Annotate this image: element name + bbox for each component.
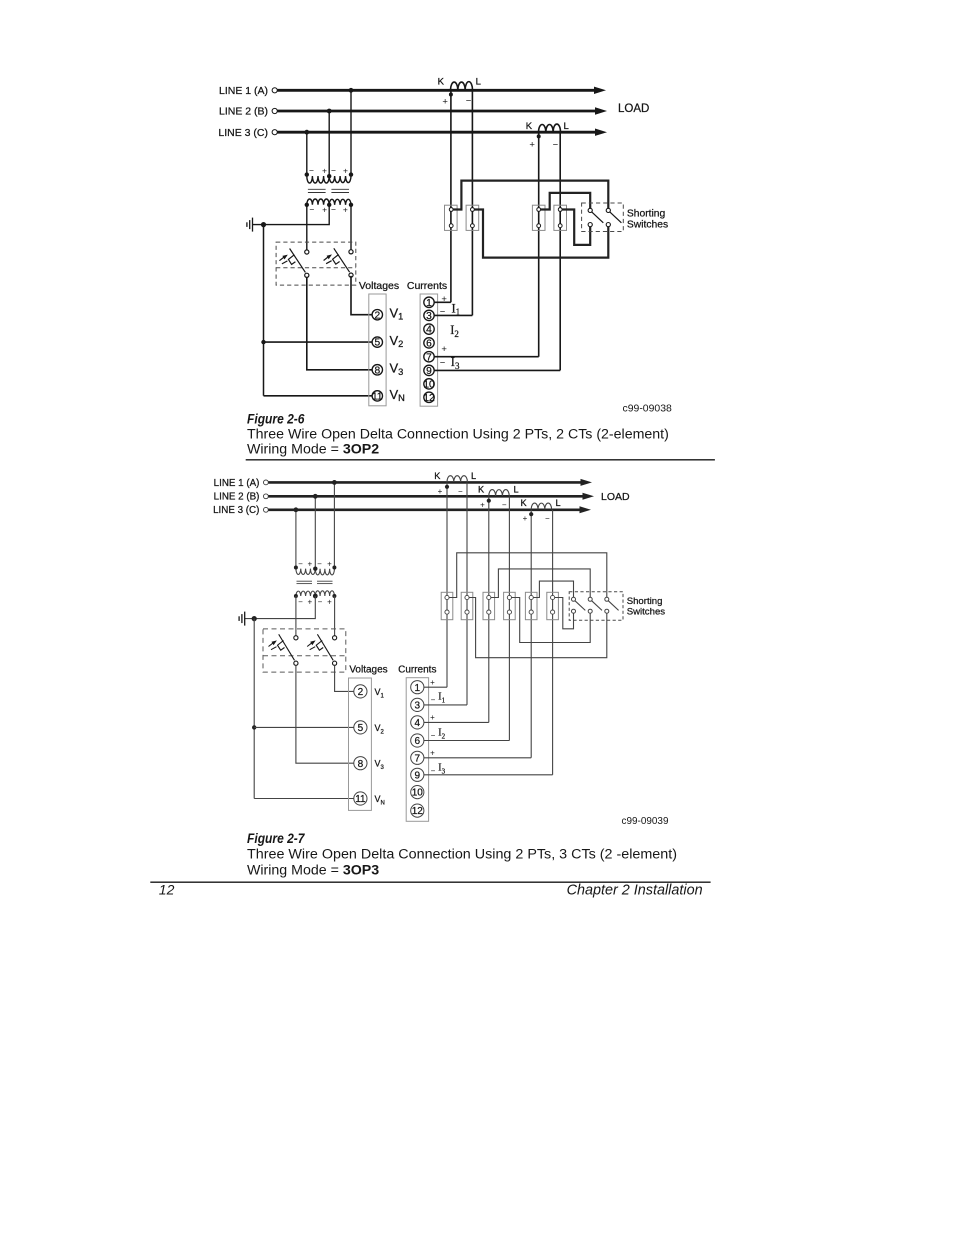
terminal 8 [354, 757, 367, 770]
shorting switches enclosure [569, 592, 623, 621]
wire CT1 L lead to terminal 3 [471, 90, 473, 315]
svg-text:Three Wire Open Delta Connecti: Three Wire Open Delta Connection Using 2… [247, 426, 669, 442]
svg-text:−: − [440, 357, 446, 368]
junction CT1 K [449, 93, 453, 97]
transformer PT2 primary winding [329, 166, 351, 183]
svg-text:Voltages: Voltages [349, 665, 387, 676]
junction PT2 secondary right [349, 203, 353, 207]
terminal 8 [372, 365, 382, 377]
svg-text:L: L [556, 498, 561, 508]
terminal 1 [424, 297, 434, 309]
svg-text:LOAD: LOAD [618, 103, 649, 115]
terminal 9 [411, 768, 424, 781]
junction neutral at V2 [261, 340, 265, 344]
svg-text:9: 9 [415, 770, 421, 781]
svg-text:+: + [430, 678, 435, 687]
svg-text:6: 6 [415, 736, 421, 747]
wire fuse F1 to terminal 8 V3 [307, 277, 373, 370]
wire line3 to PT1 primary [306, 132, 308, 176]
footer [150, 881, 710, 898]
svg-text:−: − [298, 560, 303, 569]
wire neutral vertical [253, 619, 255, 799]
svg-text:Switches: Switches [627, 607, 666, 618]
wire terminal 4 [424, 721, 489, 723]
svg-text:Currents: Currents [407, 280, 447, 292]
svg-text:+: + [523, 514, 528, 523]
junction PT primary center [327, 174, 331, 178]
svg-text:LINE 1 (A): LINE 1 (A) [214, 478, 260, 489]
test block TB3 [532, 205, 545, 230]
svg-text:+: + [343, 166, 348, 176]
current terminal strip [406, 678, 428, 822]
test block TB1 [441, 592, 453, 619]
svg-text:VN: VN [390, 387, 405, 403]
svg-text:LINE 3 (C): LINE 3 (C) [218, 127, 268, 139]
svg-text:9: 9 [426, 366, 432, 377]
svg-text:Switches: Switches [627, 220, 668, 231]
svg-text:K: K [526, 121, 533, 132]
wire terminal 9 [424, 774, 553, 776]
svg-text:LINE 2 (B): LINE 2 (B) [214, 492, 260, 503]
wire fuse F2 to terminal 2 V1 [335, 665, 354, 691]
junction line1 tap [349, 88, 354, 93]
svg-text:c99-09038: c99-09038 [623, 403, 672, 415]
wire terminal 9 [434, 369, 560, 371]
svg-text:12: 12 [159, 881, 175, 897]
svg-text:V3: V3 [375, 759, 385, 772]
svg-text:c99-09039: c99-09039 [622, 816, 669, 827]
wire TB3 to shorting switch SS2 top [491, 569, 591, 598]
terminal 4 [411, 716, 424, 729]
svg-text:3: 3 [415, 701, 421, 712]
shorting switch SSB [606, 208, 621, 226]
svg-text:I2: I2 [438, 728, 445, 741]
svg-text:VN: VN [375, 794, 385, 807]
svg-text:10: 10 [412, 788, 424, 799]
svg-text:I3: I3 [451, 355, 460, 371]
transformer PT1 primary winding [307, 166, 329, 183]
wire CT3 L lead to terminal 9 [552, 510, 554, 775]
svg-text:Figure 2-7: Figure 2-7 [247, 831, 305, 847]
wire CT3 K lead to terminal 7 [530, 510, 532, 758]
wire to terminal 5 V2 [264, 341, 373, 343]
terminal 6 [424, 338, 434, 350]
terminal 11 [354, 792, 367, 805]
svg-text:−: − [431, 731, 436, 740]
junction line3 tap [304, 130, 309, 135]
svg-text:V1: V1 [375, 687, 385, 700]
wire TB5 to shorting switch SS1 top [533, 581, 574, 597]
junction neutral [261, 222, 266, 227]
wire TB2 to shorting switch SS3 bottom [469, 598, 607, 658]
svg-text:+: + [438, 487, 443, 496]
svg-text:+: + [529, 140, 535, 151]
wire secondary center to ground bus [245, 596, 316, 619]
terminal 11 [372, 391, 383, 403]
junction PT secondary center [327, 203, 331, 207]
ground [239, 612, 245, 626]
fuse switch F2 [307, 634, 337, 665]
core PT2 [317, 581, 333, 583]
terminal 5 [354, 721, 367, 734]
svg-text:I1: I1 [438, 692, 445, 705]
wire TB2 to shorting switch bottom right [474, 210, 608, 258]
svg-text:Shorting: Shorting [627, 596, 663, 607]
bus LINE 1 (A) [219, 85, 606, 97]
terminal 7 [424, 352, 434, 364]
svg-text:−: − [466, 96, 472, 107]
shorting switches enclosure [582, 203, 624, 232]
wire secondary center to ground bus [253, 205, 330, 225]
CT3 coil on line 3 [521, 498, 561, 523]
svg-text:K: K [438, 77, 445, 88]
wire TB4 to shorting switch SS2 bottom [511, 598, 590, 643]
bus LINE 3 (C) [218, 127, 607, 139]
svg-text:I2: I2 [450, 323, 459, 339]
wire fuse F1 to terminal 8 V3 [296, 665, 354, 763]
svg-text:5: 5 [374, 338, 380, 349]
transformer PT2 primary winding [315, 560, 334, 575]
junction CT1 K [445, 485, 449, 489]
junction CT3 K [529, 512, 533, 516]
svg-text:6: 6 [426, 339, 432, 350]
test block TB5 [525, 592, 537, 619]
svg-text:1: 1 [415, 683, 421, 694]
wire PT1 secondary left to fuse switch 1 [295, 596, 297, 636]
wire to terminal 11 VN [264, 395, 373, 397]
svg-text:LOAD: LOAD [601, 491, 630, 503]
wire terminal 7 [424, 757, 532, 759]
junction PT1 secondary left [305, 203, 309, 207]
svg-text:7: 7 [426, 352, 432, 363]
CT1 coil on line 1 [438, 77, 481, 108]
svg-text:Shorting: Shorting [627, 208, 666, 219]
terminal 3 [411, 698, 424, 711]
junction PT secondary center [313, 594, 318, 599]
wire line2 to PT primary center [328, 111, 330, 176]
test block TB2 [466, 205, 479, 230]
junction line2 tap [313, 494, 318, 499]
svg-text:+: + [322, 204, 327, 214]
junction PT1 primary left [305, 172, 309, 176]
wire terminal 3 [434, 314, 472, 316]
junction PT1 secondary left [294, 594, 298, 598]
wire terminal 7 [434, 356, 539, 358]
terminal 7 [411, 751, 424, 764]
terminal 2 [372, 310, 382, 322]
svg-text:K: K [521, 498, 528, 508]
transformer PT2 secondary winding [329, 199, 351, 214]
svg-text:−: − [431, 766, 436, 775]
junction neutral at V2 [252, 725, 256, 729]
CT2 coil on line 3 [526, 121, 569, 150]
terminal 10 [411, 786, 424, 799]
svg-text:10: 10 [423, 380, 435, 391]
wire TB4 to shorting switch bottom left [562, 210, 590, 245]
svg-text:V3: V3 [390, 361, 404, 377]
junction line1 tap [332, 480, 337, 485]
svg-text:I3: I3 [438, 762, 445, 775]
fuse switch F2 [324, 248, 354, 277]
svg-text:+: + [343, 204, 348, 214]
dashed fuse enclosure [276, 242, 356, 285]
test block TB4 [504, 592, 516, 619]
svg-text:V1: V1 [390, 306, 404, 322]
junction PT primary center [313, 567, 317, 571]
shorting switch SS3 [605, 597, 619, 613]
wire line3 to PT1 primary [295, 510, 297, 569]
svg-text:12: 12 [412, 806, 424, 817]
wire neutral vertical [263, 225, 265, 396]
core PT1 [297, 581, 313, 583]
junction PT1 primary left [294, 566, 298, 570]
svg-text:3: 3 [426, 311, 432, 322]
test block TB2 [461, 592, 473, 619]
svg-text:7: 7 [415, 753, 421, 764]
wire PT2 secondary right to fuse switch 2 [350, 205, 352, 250]
terminal 9 [424, 365, 434, 377]
transformer PT1 secondary winding [307, 199, 329, 214]
svg-text:+: + [441, 294, 447, 305]
svg-text:8: 8 [374, 365, 380, 376]
terminal 1 [411, 681, 424, 694]
svg-text:−: − [502, 501, 507, 510]
terminal 3 [424, 310, 434, 322]
svg-text:L: L [564, 121, 569, 132]
svg-text:−: − [545, 514, 550, 523]
wire CT1 K lead to terminal 1 [450, 90, 452, 302]
svg-text:+: + [327, 560, 332, 569]
caption figure 2-7 [247, 831, 677, 879]
terminal 4 [424, 324, 434, 336]
svg-text:Chapter 2 Installation: Chapter 2 Installation [567, 883, 703, 899]
svg-text:−: − [309, 166, 314, 176]
svg-text:−: − [331, 166, 336, 176]
svg-text:+: + [442, 96, 448, 107]
svg-text:+: + [430, 713, 435, 722]
transformer PT1 primary winding [296, 560, 315, 575]
wire TB1 to shorting switch SS3 top [449, 553, 607, 598]
wire line2 to PT primary center [314, 496, 316, 568]
test block TB3 [483, 592, 495, 619]
svg-text:+: + [307, 598, 312, 607]
CT2 coil on line 2 [478, 485, 519, 510]
wire TB6 to shorting switch SS1 bottom [554, 598, 573, 629]
svg-text:K: K [478, 485, 485, 495]
terminal 12 [411, 804, 424, 817]
wire terminal 3 [424, 704, 467, 706]
shorting switch SS1 [572, 597, 586, 613]
svg-text:4: 4 [415, 718, 421, 729]
svg-text:Wiring Mode = 3OP2: Wiring Mode = 3OP2 [247, 441, 379, 457]
svg-text:1: 1 [426, 298, 432, 309]
svg-text:Currents: Currents [398, 665, 436, 676]
bus LINE 2 (B) [214, 492, 594, 503]
junction PT2 primary right [349, 172, 353, 176]
svg-text:−: − [298, 598, 303, 607]
wire TB3 to shorting switch top left [541, 193, 591, 210]
test block TB4 [554, 205, 567, 230]
svg-text:2: 2 [374, 310, 380, 321]
bus LINE 3 (C) [213, 505, 591, 516]
svg-text:5: 5 [358, 723, 364, 734]
svg-text:8: 8 [358, 759, 364, 770]
svg-text:K: K [434, 471, 441, 481]
wire TB1 to shorting switch top right [453, 181, 608, 210]
svg-text:12: 12 [423, 393, 435, 404]
svg-text:−: − [458, 487, 463, 496]
svg-text:+: + [441, 344, 447, 355]
core PT1 [308, 189, 326, 192]
junction neutral [252, 616, 257, 621]
junction line3 tap [294, 507, 299, 512]
bus LINE 2 (B) [219, 106, 607, 118]
wire CT2 L lead to terminal 9 [559, 132, 561, 370]
wire CT1 K lead to terminal 1 [446, 482, 448, 687]
svg-text:LINE 1 (A): LINE 1 (A) [219, 85, 268, 97]
svg-text:L: L [471, 471, 476, 481]
wire line1 to PT2 primary [350, 90, 352, 176]
svg-text:−: − [318, 598, 323, 607]
svg-text:+: + [480, 501, 485, 510]
wire to terminal 11 VN [254, 798, 354, 800]
svg-text:+: + [307, 560, 312, 569]
svg-text:2: 2 [358, 687, 364, 698]
svg-text:11: 11 [355, 794, 366, 805]
test block TB1 [445, 205, 458, 230]
wire CT2 L lead to terminal 6 [508, 496, 510, 740]
svg-text:11: 11 [372, 392, 383, 403]
svg-text:+: + [327, 598, 332, 607]
junction CT2 K [537, 134, 541, 138]
wire fuse F2 to terminal 2 V1 [351, 276, 372, 315]
bus LINE 1 (A) [214, 478, 592, 489]
wire terminal 1 [434, 301, 451, 303]
svg-text:Figure 2-6: Figure 2-6 [247, 411, 305, 427]
junction line2 tap [327, 109, 332, 114]
svg-text:LINE 3 (C): LINE 3 (C) [213, 505, 259, 516]
junction CT2 K [487, 499, 491, 503]
shorting switch SSA [588, 208, 603, 226]
svg-text:+: + [322, 166, 327, 176]
terminal 5 [372, 337, 382, 349]
wire terminal 6 [424, 740, 510, 742]
transformer PT2 secondary winding [315, 591, 334, 607]
svg-text:L: L [476, 77, 481, 88]
wire terminal 1 [424, 686, 447, 688]
current terminal strip [420, 294, 438, 406]
terminal 2 [354, 685, 367, 698]
svg-text:Wiring Mode = 3OP3: Wiring Mode = 3OP3 [247, 862, 379, 878]
svg-text:−: − [309, 204, 314, 214]
terminal 10 [423, 379, 435, 391]
voltage terminal strip [349, 678, 372, 810]
core PT2 [331, 189, 349, 192]
junction PT2 secondary right [332, 594, 336, 598]
svg-text:4: 4 [426, 325, 432, 336]
svg-text:−: − [553, 140, 559, 151]
voltage terminal strip [369, 294, 386, 406]
wire PT2 secondary right to fuse switch 2 [334, 596, 336, 636]
wire CT1 L lead to terminal 3 [466, 482, 468, 705]
fuse switch F1 [279, 249, 309, 278]
svg-text:V2: V2 [375, 723, 385, 736]
svg-text:V2: V2 [390, 333, 404, 349]
svg-text:−: − [331, 204, 336, 214]
CT1 coil on line 1 [434, 471, 476, 496]
shorting switch SS2 [588, 597, 602, 613]
svg-text:Voltages: Voltages [359, 280, 399, 292]
svg-text:L: L [514, 485, 519, 495]
svg-text:−: − [431, 696, 436, 705]
transformer PT1 secondary winding [296, 591, 315, 606]
test block TB6 [547, 592, 559, 619]
dashed fuse enclosure [263, 629, 346, 672]
wire CT2 K lead to terminal 4 [488, 496, 490, 722]
svg-text:−: − [317, 560, 322, 569]
terminal 6 [411, 734, 424, 747]
svg-text:LINE 2 (B): LINE 2 (B) [219, 106, 268, 118]
wire PT1 secondary left to fuse switch 1 [306, 205, 308, 250]
fuse switch F1 [269, 634, 299, 665]
wire to terminal 5 V2 [254, 726, 354, 728]
svg-text:Three Wire Open Delta Connecti: Three Wire Open Delta Connection Using 2… [247, 846, 677, 862]
junction PT2 primary right [332, 566, 336, 570]
svg-text:+: + [430, 749, 435, 758]
ground [247, 218, 253, 232]
wire CT2 K lead to terminal 7 [538, 132, 540, 357]
caption figure 2-6 [246, 411, 715, 460]
wire line1 to PT2 primary [333, 482, 335, 568]
terminal 12 [423, 392, 435, 404]
